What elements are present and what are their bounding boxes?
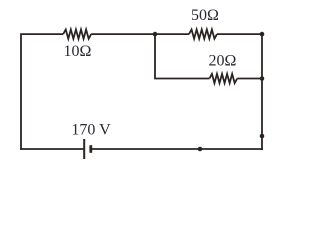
svg-text:170 V: 170 V [71,121,111,138]
wire: top segment from R1 to node A [91,33,155,35]
wire: left vertical and top-left horizontal segment [21,34,63,150]
node C where R3 branch joins right wire [260,76,265,81]
resistor R2 50Ω zigzag [189,30,217,39]
wire: top segment from node A to R2 [155,33,189,35]
resistor R3 20Ω zigzag [209,74,237,83]
node D terminal dot on right wire [260,134,265,139]
wire: bottom segment from battery to left corner [20,148,83,150]
battery V1 long positive plate [83,139,85,159]
svg-text:50Ω: 50Ω [191,7,219,24]
node B top-right corner junction dot [260,32,265,37]
svg-text:10Ω: 10Ω [64,43,92,60]
wire: top segment from R2 to top-right corner [217,33,262,35]
svg-text:20Ω: 20Ω [209,53,237,70]
wire: bottom segment from right corner to battery [92,148,263,150]
wire: right vertical segment [261,34,263,150]
battery V1 short negative plate [89,145,92,153]
wire: branch from node A down and right to R3 [155,34,209,78]
node E terminal dot on bottom wire [198,147,203,152]
resistor R1 10Ω zigzag [63,30,91,39]
node A junction dot [153,32,158,37]
wire: from R3 to right vertical wire [237,78,262,80]
